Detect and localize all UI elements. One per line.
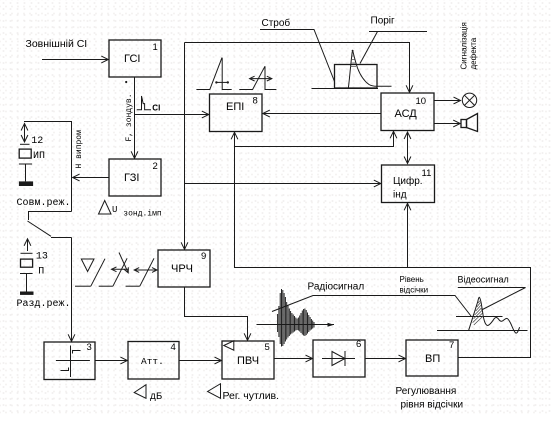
- svg-text:Рег. чутлив.: Рег. чутлив.: [223, 390, 280, 402]
- svg-text:12: 12: [31, 136, 43, 147]
- strobe gate with echo pulse: [312, 50, 392, 89]
- block 3 limiter: [44, 342, 95, 380]
- block 7 ВП: [406, 340, 458, 376]
- svg-text:4: 4: [171, 342, 176, 353]
- svg-text:6: 6: [356, 339, 361, 350]
- wire external sync input arrow: [42, 59, 108, 61]
- sweep waveform 2 (duration): [239, 66, 276, 89]
- svg-text:дефекта: дефекта: [469, 37, 478, 69]
- wire probe 13 arrow: [27, 239, 29, 251]
- block 5 ПВЧ: [222, 341, 274, 379]
- svg-text:АСД: АСД: [395, 108, 418, 120]
- wire sync bus vertical x184 to ЧРЧ: [184, 43, 186, 250]
- svg-text:Зовнішній СІ: Зовнішній СІ: [26, 38, 88, 50]
- svg-text:Радіосигнал: Радіосигнал: [308, 282, 365, 293]
- svg-text:ГЗІ: ГЗІ: [124, 172, 139, 184]
- lamp indicator: [462, 93, 476, 107]
- svg-text:ГСІ: ГСІ: [124, 53, 140, 65]
- wire video branch to АСД: [235, 131, 394, 146]
- svg-text:Совм.реж.: Совм.реж.: [17, 198, 71, 209]
- label Сигналізація дефекта (rotated): [460, 22, 479, 69]
- switch mode selector: [28, 212, 72, 238]
- label Поріг with callout: [360, 16, 427, 64]
- svg-text:Поріг: Поріг: [371, 16, 396, 27]
- block 9 ЧРЧ: [158, 250, 210, 287]
- label Відеосигнал with callout: [458, 274, 526, 310]
- transducer ИП (probe 12): [19, 149, 45, 186]
- wire probe column x71 upper: [24, 122, 72, 212]
- block 10 АСД: [381, 93, 434, 131]
- block 2 ГЗІ: [109, 159, 161, 196]
- block 1 ГСІ: [109, 40, 161, 77]
- speaker: [461, 114, 478, 132]
- svg-text:Регулювання: Регулювання: [396, 386, 457, 397]
- svg-text:Строб: Строб: [262, 17, 291, 29]
- svg-text:дБ: дБ: [150, 392, 162, 403]
- svg-text:1: 1: [153, 42, 158, 53]
- svg-text:3: 3: [87, 342, 92, 353]
- svg-text:зонд.імп: зонд.імп: [123, 210, 162, 219]
- wire АСД to ЕПІ: [263, 113, 381, 115]
- svg-text:13: 13: [36, 251, 48, 262]
- wire sync bus top to АСД: [185, 43, 410, 93]
- svg-text:ЧРЧ: ЧРЧ: [171, 263, 193, 275]
- node dot below ГСІ: [125, 81, 127, 83]
- sweep waveform 1 (delay): [196, 58, 231, 90]
- svg-text:ИП: ИП: [33, 151, 45, 162]
- block 11 Цифр.інд: [382, 165, 435, 203]
- label Радіосигнал with callout: [272, 282, 471, 317]
- block 4 Атт.: [128, 342, 179, 380]
- wire 5 to 6: [274, 358, 313, 360]
- wire ВП up right side to video bus: [235, 132, 531, 357]
- wire video branch to Цифр.інд: [407, 203, 409, 267]
- wire АСД to speaker: [434, 123, 460, 125]
- svg-text:8: 8: [253, 96, 258, 107]
- svg-text:11: 11: [422, 168, 432, 179]
- wire sync branch to Цифр.інд: [185, 183, 381, 185]
- wire ГСІ to ГЗІ: [134, 77, 136, 158]
- label Рівень відсічки: [400, 275, 429, 295]
- svg-text:П: П: [38, 267, 44, 278]
- svg-text:ПВЧ: ПВЧ: [237, 355, 259, 367]
- svg-text:Сигналізація: Сигналізація: [460, 22, 469, 69]
- svg-text:10: 10: [416, 96, 427, 107]
- TVG control symbols (triangle and slashed arrows): [75, 253, 157, 287]
- label U зонд.імп with triangle: [99, 201, 162, 219]
- video signal waveform: [437, 297, 528, 333]
- block 6 detector: [313, 339, 365, 377]
- svg-text:F, зондув.: F, зондув.: [125, 93, 134, 141]
- svg-text:Н випром: Н випром: [75, 130, 84, 169]
- svg-text:5: 5: [265, 342, 270, 353]
- transducer П (probe 13): [20, 259, 44, 295]
- wire probe 12 double arrow: [24, 124, 26, 143]
- wire АСД-Цифр.інд double arrow: [407, 132, 409, 164]
- wire switch to block 3: [71, 238, 73, 342]
- wire ГСІ branch to ЕПІ: [135, 114, 209, 116]
- svg-text:ВП: ВП: [425, 353, 440, 365]
- svg-text:U: U: [112, 205, 117, 215]
- svg-text:Разд.реж.: Разд.реж.: [17, 299, 71, 310]
- sync pulse symbol СІ: [137, 96, 161, 113]
- wire ЧРЧ to ПВЧ: [185, 287, 248, 340]
- svg-text:9: 9: [201, 251, 206, 262]
- wire АСД to lamp: [434, 100, 461, 102]
- svg-text:інд: інд: [393, 190, 407, 201]
- svg-text:СІ: СІ: [152, 104, 160, 113]
- wire 6 to 7: [365, 358, 406, 360]
- wire 3 to 4: [95, 360, 127, 362]
- svg-text:2: 2: [153, 161, 158, 172]
- svg-text:рівня відсічки: рівня відсічки: [401, 400, 464, 411]
- svg-text:7: 7: [449, 340, 454, 351]
- svg-text:Цифр.: Цифр.: [393, 175, 423, 187]
- svg-text:відсічки: відсічки: [400, 286, 429, 295]
- label Строб with callout: [260, 17, 335, 82]
- svg-text:ЕПІ: ЕПІ: [226, 101, 244, 113]
- RF burst waveform: [257, 289, 335, 347]
- wire 4 to 5: [179, 360, 222, 362]
- label Рег. чутлив. control: [208, 384, 280, 402]
- svg-text:Відеосигнал: Відеосигнал: [458, 274, 509, 284]
- svg-text:Рівень: Рівень: [400, 275, 424, 284]
- block 8 ЕПІ: [210, 94, 263, 132]
- svg-text:Атт.: Атт.: [141, 356, 164, 367]
- wire ГЗІ to probe line: [73, 177, 109, 179]
- label дБ control: [134, 385, 162, 403]
